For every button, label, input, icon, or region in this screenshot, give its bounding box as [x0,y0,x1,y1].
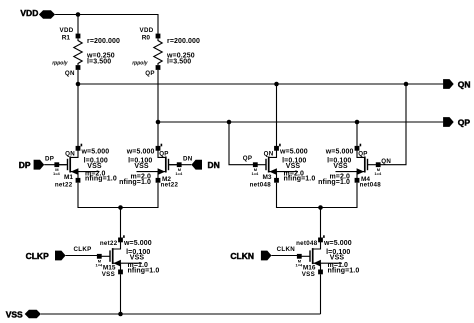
svg-text:QN: QN [381,158,391,165]
svg-text:1=4: 1=4 [374,171,382,176]
svg-text:r=200.000: r=200.000 [87,38,120,45]
svg-text:QP: QP [243,155,253,162]
svg-text:w=5.000: w=5.000 [81,148,110,155]
svg-text:nfing=1.0: nfing=1.0 [328,267,360,274]
pin VDD [20,8,55,19]
svg-text:nfing=1.0: nfing=1.0 [128,267,160,274]
wire M4 drain to QP rail [356,122,358,146]
wire M16 source to VSS [320,274,322,314]
wire QP rail [158,121,443,123]
svg-text:R1: R1 [62,34,71,41]
svg-text:nfing=1.0: nfing=1.0 [318,179,350,186]
svg-text:w=5.000: w=5.000 [123,240,152,247]
node QN-M3drain junction [274,82,279,87]
svg-text:r=200.000: r=200.000 [167,38,200,45]
transistor M2 [119,144,183,189]
wire VDD rail [55,15,158,35]
node QN-M4gate junction [404,82,409,87]
node net22 junction [118,205,123,210]
node QP-M4drain junction [355,120,360,125]
wire M15 source to VSS [120,274,122,314]
wire CLKN to M16 gate [272,255,298,257]
svg-text:VSS: VSS [333,163,348,170]
svg-text:net22: net22 [55,182,73,189]
svg-text:VSS: VSS [330,254,345,261]
svg-text:QN: QN [65,70,75,77]
wire net22 to M15 drain [120,208,122,238]
pin CLKN [230,251,271,262]
wire DP to M1 gate [44,164,66,166]
pin QP [443,117,470,128]
svg-text:DN: DN [183,155,193,162]
transistor M16 [296,235,360,278]
svg-text:rppoly: rppoly [132,61,147,67]
svg-text:net22: net22 [100,240,118,247]
node QP-M3gate junction [227,120,232,125]
svg-text:M2: M2 [162,176,171,183]
svg-text:VSS: VSS [102,271,115,278]
svg-text:VDD: VDD [60,27,74,34]
svg-text:VSS: VSS [6,309,23,319]
svg-text:w=5.000: w=5.000 [325,148,354,155]
node VSS junction [118,312,123,317]
node net048 junction [318,205,323,210]
wire QN rail to M4 gate [380,84,406,165]
svg-text:VSS: VSS [130,254,145,261]
svg-text:CLKN: CLKN [277,246,296,253]
wire DN to M2 gate [170,164,192,166]
transistor M1 [53,144,117,189]
svg-text:DP: DP [45,155,54,162]
node VDD junction [76,12,81,17]
svg-text:QP: QP [358,151,368,158]
node QN-R1 junction [76,82,81,87]
svg-text:QP: QP [458,118,471,128]
svg-text:CLKN: CLKN [230,251,254,261]
wire net048 to M16 drain [320,208,322,238]
svg-text:VSS: VSS [286,163,301,170]
resistor R0 [132,27,200,77]
transistor M4 [318,144,382,189]
wire QP rail to M3 gate [229,122,253,165]
pin VSS [6,309,41,319]
wire R1 to M1 drain (QN column) [77,70,79,146]
svg-text:1=4: 1=4 [252,171,260,176]
svg-text:R0: R0 [142,34,151,41]
svg-text:CLKP: CLKP [74,246,92,253]
pin DP [19,160,44,170]
wire R0 to M2 drain (QP column) [157,70,159,146]
svg-text:VSS: VSS [134,163,149,170]
svg-text:l=3.500: l=3.500 [87,59,111,66]
resistor R1 [52,27,120,77]
svg-text:net048: net048 [296,240,318,247]
svg-text:net048: net048 [250,182,272,189]
wire net22 tail (M1/M2 sources) [78,183,158,208]
svg-text:M15: M15 [103,264,116,271]
svg-text:M3: M3 [262,174,271,181]
wire CLKP to M15 gate [66,255,98,257]
svg-text:rppoly: rppoly [52,61,67,67]
svg-text:1=4: 1=4 [175,171,183,176]
svg-text:VDD: VDD [20,8,38,18]
svg-text:CLKP: CLKP [26,251,49,261]
svg-text:w=5.000: w=5.000 [279,148,308,155]
wire QN rail [78,83,443,85]
svg-text:l=3.500: l=3.500 [167,59,191,66]
pin CLKP [26,251,66,262]
svg-text:QP: QP [145,70,155,77]
svg-text:w=5.000: w=5.000 [323,240,352,247]
svg-text:QP: QP [159,151,169,158]
svg-text:M16: M16 [303,264,316,271]
svg-text:w=5.000: w=5.000 [126,148,155,155]
svg-text:M1: M1 [64,174,73,181]
transistor M3 [250,144,316,189]
svg-text:nfing=1.0: nfing=1.0 [284,176,316,183]
pin QN [443,79,470,89]
svg-text:M4: M4 [361,176,370,183]
svg-text:nfing=1.0: nfing=1.0 [119,179,151,186]
svg-text:1=4: 1=4 [53,171,61,176]
svg-text:DN: DN [208,160,220,170]
svg-text:DP: DP [19,160,31,170]
svg-text:VSS: VSS [302,271,315,278]
wire VSS rail [41,313,321,315]
svg-text:VDD: VDD [140,27,154,34]
svg-text:QN: QN [65,151,75,158]
transistor M15 [96,235,160,278]
wire net048 tail (M3/M4 sources) [277,183,358,208]
svg-text:QN: QN [264,151,274,158]
svg-text:nfing=1.0: nfing=1.0 [85,176,117,183]
node QP-R0 junction [156,120,161,125]
svg-text:QN: QN [458,80,471,90]
wire M3 drain to QN rail [276,84,278,146]
pin DN [191,160,219,170]
svg-text:VSS: VSS [87,163,102,170]
wire VDD to R1 [77,15,79,35]
